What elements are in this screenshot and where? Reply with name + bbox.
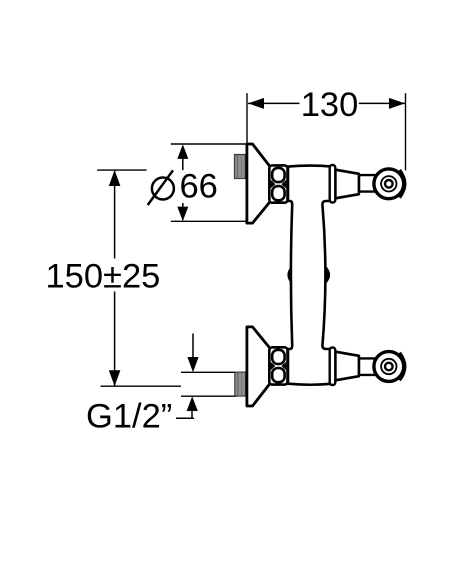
- dimension 150+-25: upper shaft: [114, 171, 116, 259]
- dimension O66: bottom extent line: [171, 220, 246, 222]
- thread-length dimension: lower extension line: [181, 395, 237, 397]
- dimension 130: extension line left: [246, 93, 248, 143]
- dimension O66: down arrow shaft: [182, 203, 184, 220]
- faucet: bottom eye (eccentric union): [374, 352, 405, 382]
- thread-length dimension: upper extension line: [181, 371, 236, 373]
- faucet: bottom union nut: [269, 347, 287, 384]
- svg-text:130: 130: [301, 86, 359, 124]
- dimension 150+-25: lower shaft: [114, 292, 116, 386]
- dimension 130: right arrowhead: [389, 98, 405, 109]
- faucet: right body seam bump: [325, 265, 330, 284]
- dimension 130: dimension line right segment: [359, 102, 405, 104]
- G1/2 label leader line: [176, 417, 194, 419]
- thread-length dimension: down arrowhead: [187, 357, 198, 372]
- svg-text:66: 66: [180, 168, 218, 206]
- svg-text:150±25: 150±25: [46, 258, 161, 296]
- dimension 150+-25: bottom arrowhead: [109, 370, 121, 386]
- faucet: bottom outlet cone: [335, 352, 359, 381]
- faucet: bottom outlet cylinder: [359, 358, 381, 375]
- faucet: bottom wall stub (G1/2 thread, hatched): [235, 372, 246, 396]
- thread-length dimension: up arrow shaft: [191, 410, 193, 418]
- faucet: top escutcheon bell: [247, 144, 270, 223]
- dimension 130: left arrowhead: [248, 98, 264, 109]
- faucet: top eye (eccentric union): [374, 169, 405, 199]
- faucet: top wall stub (G1/2 thread, hatched): [235, 155, 246, 179]
- dimension O66: diameter symbol slash: [148, 170, 173, 205]
- dimension O66: top extent line: [171, 143, 246, 145]
- faucet: left body seam bump: [287, 265, 292, 284]
- dimension O66: up arrow shaft: [182, 146, 184, 170]
- faucet: bottom escutcheon bell: [247, 327, 270, 406]
- faucet: bottom flange ring: [330, 348, 336, 386]
- dimension 150+-25: bottom tick: [101, 385, 182, 387]
- faucet: top outlet cylinder: [359, 175, 381, 192]
- dimension O66: diameter symbol circle: [152, 178, 174, 200]
- thread-length dimension: down arrow shaft: [192, 334, 194, 361]
- dimension O66: down arrowhead: [177, 207, 188, 222]
- faucet: top union nut: [269, 165, 287, 202]
- dimension 130: extension line right: [405, 93, 407, 170]
- faucet: top outlet cone: [335, 170, 359, 199]
- dimension 150+-25: top tick: [97, 169, 147, 171]
- dimension 150+-25: top arrowhead: [109, 170, 121, 186]
- faucet: top flange ring: [330, 165, 336, 203]
- dimension O66: up arrowhead: [177, 144, 188, 159]
- thread-length dimension: up arrowhead: [187, 396, 198, 411]
- faucet: main body silhouette (arms + vertical column): [288, 166, 333, 385]
- svg-text:G1/2”: G1/2”: [86, 398, 172, 436]
- dimension 130: dimension line left segment: [248, 102, 299, 104]
